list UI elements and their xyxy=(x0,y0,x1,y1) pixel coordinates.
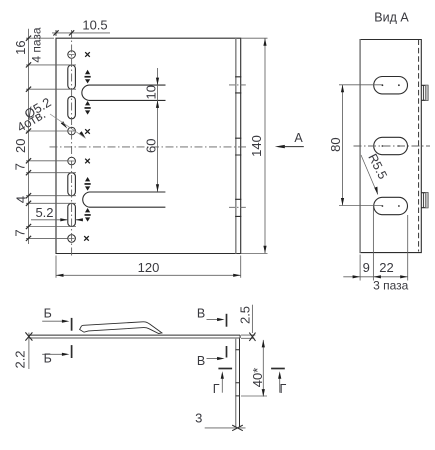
svg-text:R5.5: R5.5 xyxy=(365,152,389,182)
svg-text:7: 7 xyxy=(12,229,27,236)
svg-text:2.2: 2.2 xyxy=(13,350,28,368)
svg-text:22: 22 xyxy=(379,260,393,275)
svg-text:120: 120 xyxy=(138,260,160,275)
svg-text:Б: Б xyxy=(44,306,52,320)
svg-text:80: 80 xyxy=(328,137,343,151)
svg-text:5.2: 5.2 xyxy=(35,205,53,220)
svg-text:20: 20 xyxy=(13,139,28,153)
svg-text:16: 16 xyxy=(13,40,28,54)
svg-text:3 паза: 3 паза xyxy=(373,278,409,292)
svg-text:9: 9 xyxy=(363,260,370,275)
svg-text:4: 4 xyxy=(14,196,29,203)
svg-text:Г: Г xyxy=(280,382,287,396)
svg-text:10: 10 xyxy=(143,85,158,99)
svg-text:4 паза: 4 паза xyxy=(29,27,43,63)
svg-text:В: В xyxy=(197,354,205,368)
svg-text:Вид А: Вид А xyxy=(374,11,409,25)
svg-text:10.5: 10.5 xyxy=(82,18,107,33)
svg-text:А: А xyxy=(294,131,303,145)
svg-text:Г: Г xyxy=(213,382,220,396)
svg-text:40*: 40* xyxy=(250,368,265,388)
svg-text:60: 60 xyxy=(143,139,158,153)
svg-text:3: 3 xyxy=(195,411,202,426)
svg-text:2.5: 2.5 xyxy=(238,306,253,324)
svg-text:В: В xyxy=(197,306,205,320)
svg-text:Б: Б xyxy=(44,352,52,366)
svg-text:7: 7 xyxy=(12,163,27,170)
svg-text:140: 140 xyxy=(249,135,264,157)
